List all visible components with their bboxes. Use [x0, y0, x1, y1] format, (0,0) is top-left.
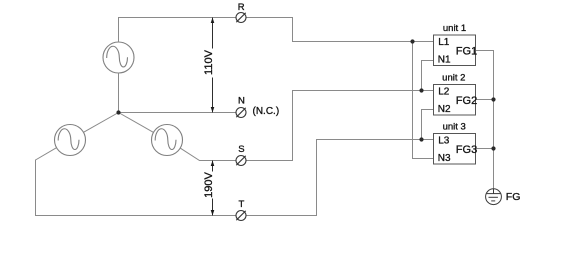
terminal R	[236, 13, 246, 23]
node: N2/L3 junction	[419, 137, 423, 141]
wire: R terminal to L1	[246, 18, 433, 42]
wire: R net down to N3	[413, 42, 434, 159]
svg-text:unit 3: unit 3	[443, 122, 466, 133]
ac source V2 (left phase)	[55, 125, 86, 156]
dimension 190V (S to T)	[212, 161, 214, 216]
ac source V3 (right phase)	[152, 125, 183, 156]
svg-text:L3: L3	[438, 135, 450, 146]
terminal N	[236, 108, 246, 118]
svg-text:FG: FG	[506, 191, 521, 203]
terminal T	[236, 211, 246, 221]
svg-text:N3: N3	[438, 153, 451, 164]
wire: star node to right source	[119, 113, 154, 133]
node: N1/L2 junction	[419, 88, 423, 92]
node: FG3 junction	[491, 146, 495, 150]
wire: N2 to L3 net	[422, 110, 434, 140]
svg-text:unit 2: unit 2	[442, 72, 465, 83]
wire: top source to star node	[118, 73, 120, 113]
terminal S	[236, 156, 246, 166]
svg-text:S: S	[238, 144, 244, 155]
unit 3 box U3	[434, 134, 476, 165]
svg-text:FG1: FG1	[456, 46, 477, 58]
wire: star node to left source	[84, 113, 119, 133]
svg-text:T: T	[238, 199, 244, 210]
svg-text:N1: N1	[438, 55, 451, 66]
wire: left source down to T wire	[36, 148, 237, 216]
svg-text:N: N	[238, 96, 245, 107]
ground FG symbol	[486, 189, 502, 205]
dimension 110V (R to N)	[212, 18, 214, 113]
svg-text:110V: 110V	[203, 49, 215, 75]
unit 1 box U1	[434, 35, 476, 66]
wire: T terminal to L3	[246, 140, 433, 216]
wire: star node to N terminal	[119, 112, 237, 114]
svg-text:L1: L1	[438, 37, 450, 48]
ac source V1 (top phase)	[103, 42, 134, 73]
svg-text:FG2: FG2	[456, 95, 477, 107]
node: star junction	[116, 110, 120, 114]
wire: S terminal to L2	[246, 91, 433, 161]
wire: FG3 to FG bus	[475, 148, 494, 150]
node: R/N3 junction	[410, 39, 414, 43]
svg-text:R: R	[238, 2, 245, 13]
svg-text:FG3: FG3	[456, 144, 477, 156]
wire: FG2 to FG bus	[475, 99, 494, 101]
svg-text:190V: 190V	[203, 171, 215, 197]
wire: N1 to L2 net	[422, 61, 434, 91]
svg-text:N2: N2	[438, 104, 451, 115]
svg-text:(N.C.): (N.C.)	[253, 106, 280, 117]
svg-text:L2: L2	[438, 86, 450, 97]
unit 2 box U2	[434, 85, 476, 116]
svg-text:unit 1: unit 1	[443, 23, 466, 34]
wire: FG1 to FG bus	[475, 51, 494, 190]
wire: top source to R terminal	[119, 18, 237, 43]
node: FG2 junction	[491, 97, 495, 101]
wire: right source to S terminal	[180, 148, 236, 160]
